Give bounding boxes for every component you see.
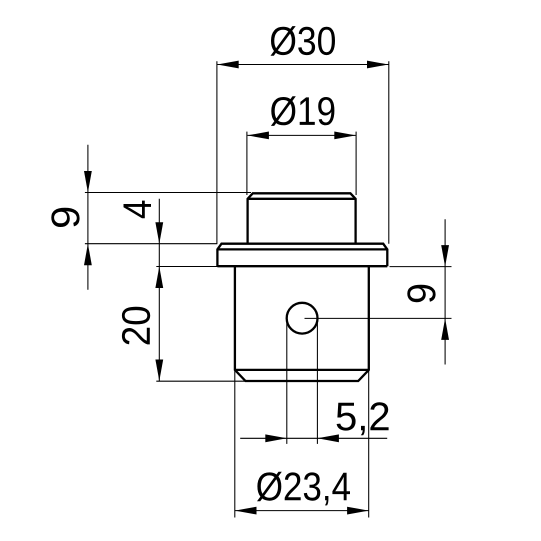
dimension 9 right: extension line at flange bottom — [390, 266, 452, 268]
arrow 20 lower (down) — [155, 360, 163, 382]
arrow 9 right upper (down) — [441, 245, 449, 267]
arrow 9 left upper (down) — [84, 171, 92, 193]
dimension 20: extension line at body bottom — [156, 380, 245, 382]
part outline: top boss Ø19 — [248, 193, 356, 243]
label Ø19 — [271, 96, 335, 126]
dimension 9 left: extension line at boss top — [85, 192, 251, 194]
arrow 9 right lower (up) — [441, 318, 449, 340]
arrow Ø30 left — [217, 61, 239, 69]
dimension Ø19: extension line left — [246, 132, 248, 195]
dimension 5,2: extension line left (hole tangent) — [286, 318, 288, 444]
dimension Ø23,4: extension line left — [234, 371, 236, 518]
dimension 9 right: leader from hole centre — [305, 317, 452, 319]
arrow 5,2 left (right-pointing) — [265, 434, 287, 442]
arrow 4 lower / 20 upper (up) — [155, 267, 163, 289]
part outline: body Ø23,4 — [235, 266, 369, 381]
dimension 5,2: extension line right (hole tangent) — [316, 318, 318, 444]
arrowheads — [84, 61, 449, 515]
dimension 5,2: dimension line — [240, 437, 387, 439]
arrow 9 left lower (up) — [84, 244, 92, 266]
dimension 4/20: extension line at flange bottom — [156, 266, 235, 268]
arrow Ø19 right — [334, 132, 356, 140]
dimension Ø23,4: extension line right — [368, 371, 370, 518]
dimension Ø23,4: dimension line — [235, 510, 369, 512]
label 5,2 — [337, 402, 389, 435]
label 4 — [124, 201, 152, 219]
arrow Ø19 left — [247, 132, 269, 140]
label Ø23,4 — [257, 472, 350, 506]
dimension Ø19: dimension line — [247, 134, 355, 136]
label 20 — [122, 307, 150, 345]
dimension 9/4: extension line at flange top — [85, 243, 217, 245]
dimension Ø30: dimension line — [217, 64, 388, 66]
arrow 5,2 right (left-pointing) — [317, 434, 339, 442]
dimension 4/20: dimension line — [158, 199, 160, 381]
label 9 left — [51, 208, 79, 227]
hole Ø5,2 — [287, 303, 318, 334]
label Ø30 — [271, 26, 336, 56]
arrow Ø30 right — [367, 61, 389, 69]
arrow Ø23,4 right — [347, 507, 369, 515]
arrow 4 upper (down) — [155, 222, 163, 244]
dimension 9 right: dimension line — [444, 219, 446, 364]
dimension Ø30: extension line left — [216, 61, 218, 243]
dimension Ø19: extension line right — [355, 132, 357, 195]
arrow Ø23,4 left — [235, 507, 257, 515]
dimension 9 left: dimension line — [87, 145, 89, 290]
thin lines — [85, 61, 452, 517]
part outline: flange Ø30 — [217, 244, 387, 267]
label 9 right — [407, 285, 435, 302]
dimension Ø30: extension line right — [388, 61, 390, 243]
